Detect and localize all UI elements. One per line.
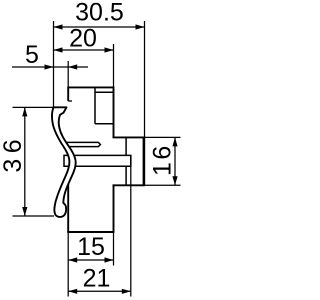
svg-text:21: 21 — [83, 265, 111, 293]
svg-text:5: 5 — [25, 41, 39, 69]
svg-text:20: 20 — [69, 25, 97, 53]
svg-text:30.5: 30.5 — [75, 0, 124, 27]
svg-text:15: 15 — [77, 233, 105, 261]
svg-text:36: 36 — [0, 134, 27, 173]
svg-text:16: 16 — [149, 143, 177, 176]
